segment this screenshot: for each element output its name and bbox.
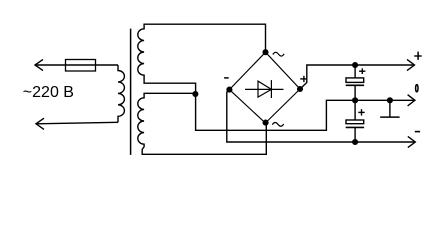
svg-text:~220 В: ~220 В [23, 84, 74, 101]
